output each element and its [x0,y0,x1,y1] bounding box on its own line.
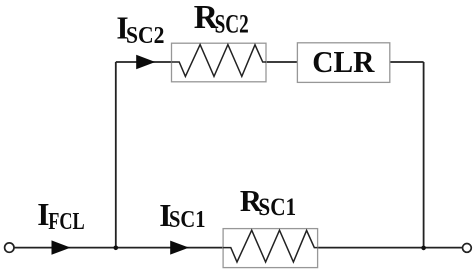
resistor R_SC2 zigzag element [172,45,266,77]
resistor R_SC1 zigzag element [223,230,318,262]
wire: bottom rail right segment (R_SC1 to right terminal) [318,247,463,249]
svg-text:CLR: CLR [312,45,375,79]
wire: top rail from R_SC2 to CLR [266,61,297,63]
wire: left vertical branch riser [115,62,117,248]
node: junction of right drop with bottom rail [421,246,426,251]
wire: bottom rail left segment (left terminal to R_SC1) [14,247,223,249]
node: junction of left branch with bottom rail [114,246,119,251]
svg-text:SC1: SC1 [169,206,206,233]
wire: right vertical drop [423,62,425,248]
terminal: right output port circle [463,244,472,253]
svg-text:SC2: SC2 [215,9,249,39]
svg-text:SC2: SC2 [126,22,165,49]
component CLR box [297,43,389,83]
terminal: left input port circle [5,243,14,252]
svg-text:SC1: SC1 [258,194,296,221]
svg-text:FCL: FCL [48,208,84,235]
wire: top rail from riser to R_SC2 [116,61,172,63]
arrow: I_SC1 current direction [170,241,189,255]
arrow: I_FCL current direction [52,240,71,254]
resistor R_SC2 box [172,43,267,82]
arrow: I_SC2 current direction [136,55,155,69]
wire: top rail from CLR to right corner [390,61,424,63]
resistor R_SC1 box [223,229,318,268]
